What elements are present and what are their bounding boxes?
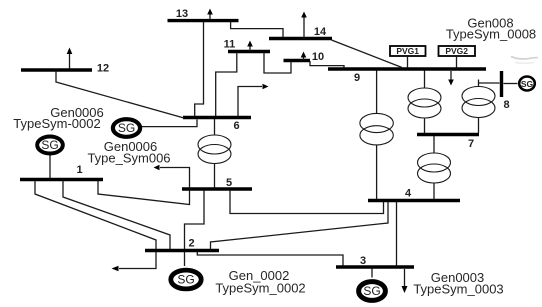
svg-text:14: 14 xyxy=(314,26,327,38)
bus 6 xyxy=(183,116,251,119)
wire line 14-9 xyxy=(332,40,403,68)
wire line 12-6 xyxy=(56,72,184,119)
svg-text:10: 10 xyxy=(312,51,324,63)
generator SG bus2 (Gen_0002) xyxy=(171,252,201,289)
wire line 13-6 xyxy=(195,22,204,116)
load arrow bus 9 (down) xyxy=(448,71,454,86)
svg-text:8: 8 xyxy=(503,99,509,111)
load arrow bus 3 (down) xyxy=(402,269,408,293)
bus 10 xyxy=(284,59,311,62)
wire line 2-3 xyxy=(197,252,343,266)
svg-text:5: 5 xyxy=(226,177,232,189)
bus 8 (vertical) xyxy=(500,71,503,97)
wire line 11-6 xyxy=(216,53,237,117)
svg-text:2: 2 xyxy=(188,238,194,250)
svg-text:13: 13 xyxy=(176,8,188,20)
svg-text:7: 7 xyxy=(468,138,474,150)
svg-text:SG: SG xyxy=(41,138,58,152)
svg-text:Type_Sym006: Type_Sym006 xyxy=(87,151,170,166)
transformer T9-4 xyxy=(360,71,393,200)
svg-text:TypeSym_0002: TypeSym_0002 xyxy=(215,281,305,296)
bus 7 xyxy=(417,133,479,136)
generator SG bus6 (Gen0006) xyxy=(113,119,197,137)
load arrow bus 6 (right) xyxy=(238,84,269,116)
transformer T7-4 xyxy=(418,136,451,199)
bus 3 xyxy=(336,265,414,268)
bus 4 xyxy=(368,199,460,202)
bus 2 xyxy=(145,249,219,252)
svg-text:SG: SG xyxy=(521,79,534,89)
generator SG bus8 (Gen008) xyxy=(504,77,535,91)
transformer T5-6 xyxy=(198,119,231,188)
wire line 2-4 xyxy=(211,202,389,249)
svg-text:4: 4 xyxy=(405,188,412,200)
bus 9 xyxy=(328,67,486,70)
PVG2 box xyxy=(439,46,476,68)
svg-text:1: 1 xyxy=(76,164,82,176)
svg-text:9: 9 xyxy=(354,72,360,84)
svg-text:SG: SG xyxy=(177,273,194,287)
PVG1 box xyxy=(390,46,426,68)
svg-text:12: 12 xyxy=(97,63,109,75)
load arrow bus 14 xyxy=(301,12,307,38)
transformer T7-8 xyxy=(462,80,500,134)
bus 1 xyxy=(20,178,103,181)
svg-text:SG: SG xyxy=(118,121,135,135)
load arrow bus 2 (left) xyxy=(112,252,157,271)
transformer T9-7 xyxy=(408,71,441,134)
load arrow bus 11 xyxy=(247,41,253,52)
wire line 3-4 xyxy=(396,202,398,266)
generator SG bus3 (Gen0003) xyxy=(359,269,386,301)
svg-text:PVG2: PVG2 xyxy=(445,46,468,56)
svg-text:11: 11 xyxy=(224,39,236,51)
bus 14 xyxy=(269,37,332,40)
wire line 1-5 xyxy=(98,181,190,205)
bus 5 xyxy=(182,187,252,190)
svg-text:TypeSym-0002: TypeSym-0002 xyxy=(13,116,100,131)
svg-text:SG: SG xyxy=(363,284,380,298)
wire line 13-14 xyxy=(231,22,283,37)
svg-text:TypeSym_0008: TypeSym_0008 xyxy=(446,27,536,42)
bus 11 xyxy=(228,50,270,53)
artifact faint swoosh xyxy=(511,57,538,59)
svg-text:PVG1: PVG1 xyxy=(396,46,419,56)
wire line 1-2 circuit a xyxy=(35,181,156,249)
svg-text:6: 6 xyxy=(233,120,239,132)
load arrow bus 10 xyxy=(301,52,307,61)
generator SG bus1 (Gen0006 TypeSym-0002) xyxy=(37,137,63,179)
bus 12 xyxy=(21,68,92,71)
wire line 5-4 xyxy=(230,191,384,214)
wire line 10-9 xyxy=(310,61,344,68)
wire line 11-10 xyxy=(264,53,291,74)
wire line 1-2 circuit b xyxy=(63,181,170,249)
load arrow bus 5 (left) xyxy=(154,165,190,188)
svg-text:3: 3 xyxy=(360,255,366,267)
load arrow bus 12 xyxy=(67,48,73,69)
bus 13 xyxy=(168,19,239,22)
load arrow bus 13 xyxy=(207,9,213,20)
svg-text:TypeSym_0003: TypeSym_0003 xyxy=(413,282,503,297)
wire line 2-5 xyxy=(185,191,205,250)
